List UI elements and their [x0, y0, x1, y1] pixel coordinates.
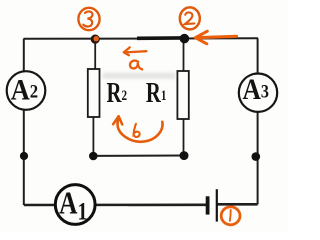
junction dot on right wire	[252, 152, 261, 161]
wire: middle horizontal (R2 bottom to R1 bottom)	[93, 155, 184, 157]
battery B1 positive plate (long thin)	[216, 189, 218, 221]
wire: right vertical	[257, 38, 259, 204]
annotation: letter a	[130, 61, 142, 70]
annotation: arrow into node 2 (points left)	[195, 31, 236, 44]
junction dot middle-left (R2 bottom)	[89, 152, 98, 161]
junction dot on left wire	[20, 152, 28, 160]
ammeter A3	[239, 73, 277, 112]
wire: R2 branch vertical lower	[92, 116, 94, 156]
wire: top bold segment between node 3 and node 2	[137, 36, 184, 40]
ammeter A1	[55, 185, 95, 226]
junction dot middle-right (R1 bottom)	[180, 151, 189, 160]
annotation: circled 3	[78, 8, 99, 30]
annotation: circled 2	[180, 7, 200, 29]
annotation: curved arrow b (counter-clockwise arc)	[113, 116, 162, 142]
resistor R2	[88, 69, 128, 117]
resistor R1	[146, 71, 189, 119]
annotation: letter b	[134, 124, 140, 137]
wire: top horizontal (left corner to right corner)	[24, 37, 259, 40]
wire: R2 branch vertical upper	[94, 39, 96, 70]
wire: R1 branch vertical	[183, 38, 185, 156]
wire: bottom right horizontal (battery to right corner)	[217, 203, 258, 206]
node 3 junction dot (black with orange pen mark)	[91, 35, 100, 44]
battery B1 negative plate (short thick)	[206, 196, 210, 214]
ammeter A2	[7, 71, 46, 110]
wire: left vertical	[23, 39, 25, 205]
wire: bottom left horizontal	[24, 204, 206, 207]
node 2 junction dot	[180, 34, 190, 44]
annotation: circled 1 (battery label)	[221, 207, 240, 225]
annotation: arrow a (points left)	[124, 47, 147, 55]
